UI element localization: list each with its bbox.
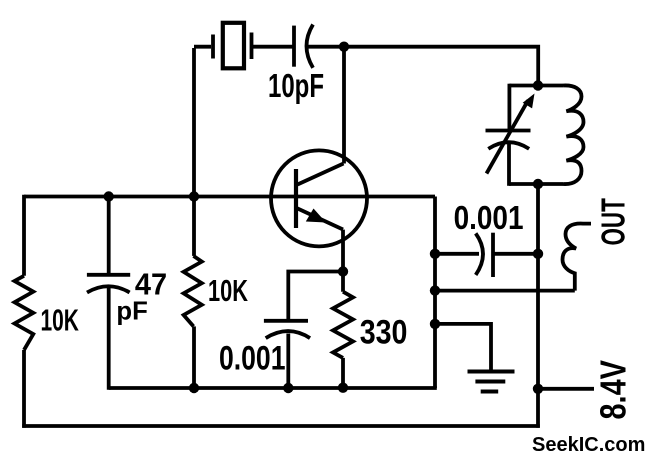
transistor Q1 emitter arrow [306, 209, 326, 223]
svg-text:8.4V: 8.4V [593, 360, 634, 419]
node tank bottom [533, 179, 543, 189]
variable capacitor C5 straight plate [486, 129, 531, 133]
wire C3 bottom lead [286, 334, 290, 389]
wire C1 to collector node [307, 45, 344, 49]
variable capacitor C5 arrow head [523, 94, 535, 109]
node ground branch [430, 319, 440, 329]
transistor Q1 body circle [271, 150, 367, 246]
node C2 top [104, 191, 114, 201]
capacitor C1 10pF right plate [307, 25, 314, 68]
svg-text:10K: 10K [41, 302, 80, 337]
wire base rail [24, 195, 435, 199]
node C4 right [533, 249, 543, 259]
wire top rail to tank [344, 47, 538, 86]
node OUT return [430, 285, 440, 295]
capacitor C1 10pF left plate [292, 26, 296, 67]
resistor R2 10K [184, 256, 202, 327]
wire C4 right lead [493, 252, 538, 256]
crystal Y1 left plate [211, 35, 215, 59]
wire crystal branch middle [192, 197, 196, 256]
resistor R3 330 [333, 292, 353, 358]
wire R2 bottom lead [192, 326, 196, 388]
tank top wire [509, 84, 563, 88]
node C3 bottom [283, 383, 293, 393]
node R3 bottom [338, 383, 348, 393]
wire C2 bottom lead [107, 288, 111, 390]
svg-text:OUT: OUT [595, 198, 632, 245]
inductor L2 OUT coil [563, 224, 592, 291]
svg-text:0.001: 0.001 [454, 199, 524, 236]
wire left vertical bottom [22, 350, 26, 428]
resistor R3 330 leads [341, 272, 345, 388]
crystal Y1 body [223, 23, 244, 69]
wire mid vertical [433, 197, 437, 389]
resistor R1 10K [15, 276, 34, 350]
wire C2 top lead [107, 197, 111, 275]
capacitor C3 bottom plate [266, 331, 310, 338]
wire crystal to C1 [253, 45, 293, 49]
capacitor C4 right plate [491, 233, 495, 277]
wire inner bottom rail [109, 386, 437, 390]
node C4 left [430, 249, 440, 259]
wire emitter lead [341, 230, 345, 272]
node collector top [339, 42, 349, 52]
tank left branch top [507, 84, 511, 130]
svg-text:0.001: 0.001 [219, 339, 286, 377]
transistor Q1 emitter diagonal [297, 208, 344, 230]
inductor L1 [563, 85, 584, 184]
capacitor C2 47pF bottom plate [87, 286, 130, 292]
node tank top [533, 80, 543, 90]
svg-text:pF: pF [116, 295, 147, 325]
wire right vertical lower [536, 184, 540, 428]
variable capacitor C5 arrow shaft [487, 101, 529, 174]
transistor Q1 base bar [294, 169, 298, 228]
capacitor C3 top plate [264, 319, 308, 323]
wire crystal left lead [194, 47, 211, 197]
crystal Y1 right plate [250, 33, 254, 60]
wire collector lead [298, 47, 345, 185]
ground symbol [468, 372, 515, 392]
wire ground lead [435, 324, 491, 370]
node emitter [338, 266, 348, 276]
wire supply 8.4V [538, 387, 594, 391]
wire OUT return [435, 289, 575, 293]
wire C4 left lead [435, 252, 479, 256]
wire bottom rail [22, 424, 540, 428]
node R2 top [189, 191, 199, 201]
tank bottom wire [509, 182, 563, 186]
svg-text:10pF: 10pF [268, 67, 324, 104]
svg-text:10K: 10K [208, 273, 248, 308]
wire emitter to C3 [288, 272, 343, 320]
tank left branch bottom [507, 144, 511, 186]
svg-text:SeekIC.com: SeekIC.com [532, 434, 645, 456]
capacitor C2 47pF top plate [87, 273, 130, 277]
svg-text:330: 330 [360, 313, 408, 351]
capacitor C4 left plate [476, 233, 483, 275]
wire left vertical top [22, 195, 26, 276]
variable capacitor C5 curved plate [488, 142, 529, 149]
node supply [533, 384, 543, 394]
node R2 bottom [189, 383, 199, 393]
